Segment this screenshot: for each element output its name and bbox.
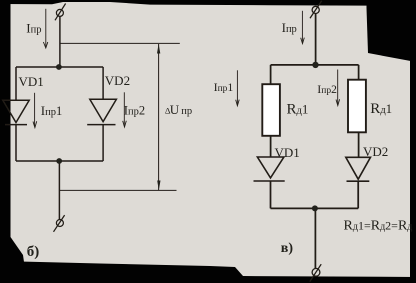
wire: top bus — [271, 64, 359, 66]
svg-text:U: U — [170, 102, 180, 117]
diode VD2 (right circuit) — [346, 157, 371, 181]
svg-text:пр: пр — [181, 106, 192, 117]
black canvas border: left band — [0, 0, 24, 283]
diode VD1 (right circuit) — [254, 157, 285, 181]
wire: resistor to VD2 — [358, 132, 360, 157]
wire: VD1 to bottom bus — [15, 125, 17, 161]
wire: left branch drop — [15, 67, 17, 100]
wire: bottom bus — [271, 207, 359, 209]
current arrow Ipr2 (right circuit) — [336, 70, 340, 106]
resistor Rd1 (left) — [262, 84, 280, 136]
dimension arrowhead bottom — [157, 181, 160, 191]
wire: VD1 to bottom bus — [270, 181, 272, 208]
wire: bottom junction to terminal — [58, 161, 60, 219]
terminal (output, bottom) — [54, 215, 65, 232]
black canvas border: top-right corner — [367, 0, 416, 62]
wire: VD2 to bottom bus — [102, 125, 104, 161]
dimension line dU — [158, 44, 160, 190]
current arrow Ipr1 — [33, 93, 37, 128]
svg-text:VD1: VD1 — [275, 145, 300, 160]
wire: top bus — [16, 66, 103, 68]
terminal (output, bottom) — [310, 264, 321, 281]
svg-text:VD2: VD2 — [363, 144, 388, 159]
junction dot bottom (right circuit) — [312, 205, 318, 211]
wire: terminal to junction — [315, 14, 317, 65]
resistor Rd1 (right) — [348, 80, 366, 133]
black canvas border: top band — [0, 0, 416, 6]
leader line bottom (dU) — [59, 189, 176, 191]
diode VD2 — [87, 99, 116, 124]
svg-text:VD1: VD1 — [19, 74, 44, 89]
current arrow Ipr (right circuit) — [301, 11, 305, 44]
junction dot bottom — [56, 158, 62, 164]
current arrow Ipr2 — [123, 92, 127, 127]
terminal (input, top) — [310, 1, 322, 18]
wire: bottom junction to terminal — [314, 208, 316, 268]
diode VD1 — [3, 100, 29, 124]
svg-text:б): б) — [27, 244, 40, 260]
current arrow Ipr (top left) — [43, 9, 47, 48]
wire: left branch drop — [270, 65, 272, 84]
wire: terminal to junction — [59, 16, 61, 66]
wire: bottom bus — [16, 160, 103, 162]
dimension arrowhead top — [157, 44, 160, 54]
junction dot top — [56, 64, 62, 70]
black canvas border: right band — [410, 55, 416, 279]
svg-text:в): в) — [281, 241, 294, 256]
junction dot top (right circuit) — [312, 62, 318, 68]
wire: right branch drop — [102, 67, 104, 99]
current arrow Ipr1 (right circuit) — [236, 70, 240, 106]
svg-text:VD2: VD2 — [105, 73, 130, 88]
wire: resistor to VD1 — [270, 136, 272, 157]
svg-text:Rд1=Rд2=Rд: Rд1=Rд2=Rд — [344, 219, 413, 234]
terminal (input, top) — [55, 4, 66, 21]
wire: VD2 to bottom bus — [357, 181, 359, 208]
leader line top (dU) — [60, 42, 179, 44]
black canvas border: bottom band — [0, 261, 416, 283]
wire: right branch drop — [358, 65, 360, 80]
